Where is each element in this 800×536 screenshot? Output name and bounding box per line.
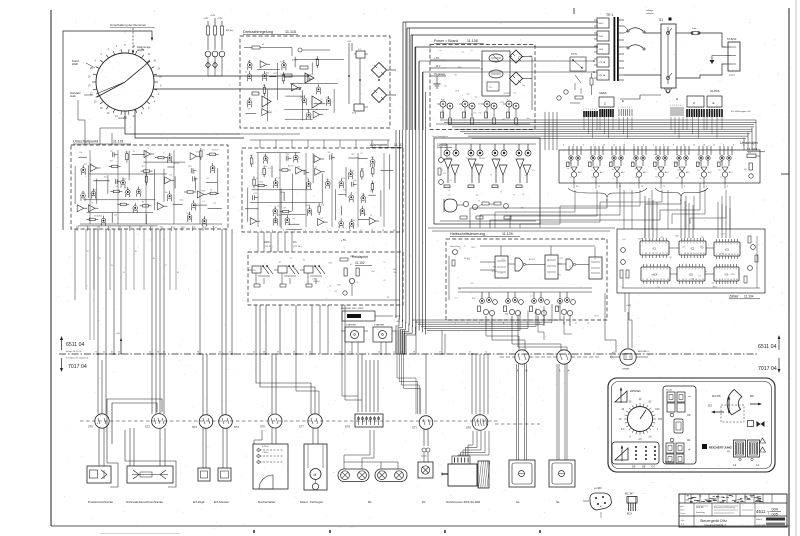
connector E ULTRA comb (707, 96, 722, 107)
Drehzahlregelung circuitry cluster (246, 56, 345, 121)
wire TR1 to S1 top (644, 32, 661, 34)
svg-text:0,5: 0,5 (524, 175, 527, 177)
svg-text:D9: D9 (632, 465, 636, 469)
elbow wires braces to counters (470, 197, 607, 228)
svg-text:ST4: ST4 (234, 425, 239, 429)
svg-text:24: 24 (576, 186, 578, 188)
Umschalter stage 5 (654, 146, 669, 183)
connector ST7 (308, 414, 322, 428)
wires Alarmprint top stubs (259, 140, 261, 148)
socket indicator O1 (670, 438, 674, 442)
svg-text:10k: 10k (165, 192, 168, 194)
wires starters to fold (351, 342, 353, 354)
svg-text:10k: 10k (79, 152, 82, 154)
svg-text:9: 9 (593, 145, 594, 147)
svg-text:IC2: IC2 (691, 279, 694, 281)
svg-text:D1: D1 (721, 155, 723, 157)
svg-text:6: 6 (680, 105, 681, 107)
SL box (549, 460, 575, 487)
svg-text:T1: T1 (490, 175, 492, 177)
wires power board internal (446, 59, 480, 61)
svg-text:7017 04: 7017 04 (758, 366, 777, 372)
svg-text:4k7: 4k7 (250, 155, 253, 157)
svg-text:15: 15 (662, 253, 664, 255)
flip-flop FF2 (545, 255, 558, 279)
svg-text:+5V: +5V (396, 321, 400, 323)
svg-text:58: 58 (413, 352, 415, 354)
Positionsschranke box (87, 466, 111, 483)
svg-text:4: 4 (590, 109, 591, 111)
connector circle B motor (515, 350, 529, 364)
svg-text:T7: T7 (594, 259, 596, 261)
svg-text:Power = Board: Power = Board (434, 39, 458, 43)
wires buzzer stubs (613, 356, 620, 358)
svg-text:9: 9 (673, 145, 674, 147)
single socket middle (674, 419, 683, 433)
svg-text:T1: T1 (513, 195, 515, 197)
svg-text:7490: 7490 (712, 287, 716, 289)
svg-text:/: / (768, 512, 769, 516)
svg-text:72: 72 (485, 352, 487, 354)
svg-text:D8: D8 (642, 465, 646, 469)
svg-text:55: 55 (253, 352, 255, 354)
svg-text:T2: T2 (466, 158, 468, 160)
svg-text:21: 21 (633, 145, 635, 147)
rotary switch wiper arm upper (125, 61, 150, 82)
gate input wires (480, 261, 495, 263)
svg-text:Wahl: Wahl (72, 62, 78, 66)
wires ST2 to Schneideschranke (129, 428, 131, 466)
block Halbschrittsteuerung 11.109 dashed border (446, 239, 607, 320)
svg-text:7447: 7447 (638, 239, 642, 241)
svg-text:UEMI: UEMI (599, 91, 607, 95)
svg-text:AL: AL (612, 168, 614, 171)
svg-text:12: 12 (194, 227, 196, 229)
svg-text:R23: R23 (351, 171, 354, 173)
diode pair above PL (422, 448, 426, 452)
tick numbers Umschalter top edge (563, 145, 754, 147)
svg-text:37: 37 (111, 352, 113, 354)
wires Umschaltpunkt top to rotary area (84, 120, 86, 145)
svg-text:5: 5 (120, 227, 121, 229)
svg-text:8: 8 (152, 227, 153, 229)
svg-text:R12: R12 (186, 213, 189, 215)
Umschalter stage bottom stubs (574, 183, 725, 189)
svg-text:14: 14 (660, 279, 662, 281)
svg-text:3: 3 (479, 323, 480, 325)
svg-text:K2: K2 (387, 297, 389, 299)
Umschaltpunkt bottom rail (80, 223, 222, 225)
title block bottom band (693, 516, 695, 527)
svg-text:1: 1 (643, 269, 644, 271)
svg-text:Schaltplan-Nr. (geblattet): Schaltplan-Nr. (geblattet) (66, 357, 88, 360)
svg-text:C12: C12 (478, 113, 481, 115)
svg-text:Positionsschranke: Positionsschranke (88, 500, 113, 504)
svg-text:4: 4 (653, 269, 654, 271)
svg-text:10k: 10k (321, 205, 324, 207)
svg-text:3: 3 (711, 107, 712, 109)
left vertical bus bundle (395, 130, 397, 318)
svg-text:EX-Messer: EX-Messer (214, 500, 229, 504)
svg-text:15: 15 (613, 145, 615, 147)
svg-text:Benennung und Bemerkung: Benennung und Bemerkung (714, 506, 735, 509)
wire TR1 secondary 24V (624, 74, 661, 76)
svg-text:6511 04: 6511 04 (758, 344, 776, 350)
svg-text:R41: R41 (273, 73, 276, 75)
Umschalter right end components (747, 154, 756, 158)
resistor R12 vertical (214, 18, 216, 26)
svg-text:17: 17 (469, 352, 471, 354)
svg-text:IC3: IC3 (725, 249, 729, 252)
svg-text:93: 93 (277, 352, 279, 354)
svg-text:11.108: 11.108 (467, 39, 478, 43)
svg-text:power: power (729, 74, 735, 77)
svg-text:6: 6 (695, 269, 696, 271)
svg-text:T4: T4 (589, 162, 591, 164)
panel triangle delta icons right (760, 438, 766, 443)
svg-text:5: 5 (727, 269, 728, 271)
svg-text:R9: R9 (142, 202, 144, 204)
svg-text:4: 4 (283, 230, 284, 232)
svg-text:C3: C3 (202, 201, 204, 203)
components near SY7C (590, 78, 593, 85)
svg-text:K3: K3 (350, 264, 352, 266)
svg-text:1: 1 (679, 269, 680, 271)
svg-text:18: 18 (703, 145, 705, 147)
svg-text:34: 34 (401, 352, 403, 354)
svg-text:T4: T4 (591, 170, 593, 172)
svg-text:D4: D4 (444, 86, 446, 88)
wire fuse to connector (699, 33, 726, 47)
fold tick right border (781, 173, 789, 175)
svg-text:ST6: ST6 (260, 425, 265, 429)
diode D12 diamond (213, 62, 218, 68)
svg-text:T4: T4 (655, 162, 657, 164)
relay SY7C box (570, 57, 586, 71)
svg-text:C3: C3 (202, 150, 204, 152)
panel warning triangle icon (615, 448, 628, 460)
svg-text:3: 3 (727, 186, 728, 188)
svg-text:D7: D7 (652, 465, 656, 469)
counter bottom rail (622, 287, 760, 289)
svg-text:D2: D2 (559, 274, 561, 276)
svg-text:BMW Δ 1/6: BMW Δ 1/6 (665, 461, 674, 464)
svg-text:O2: O2 (687, 413, 691, 417)
ground symbol power board (436, 76, 438, 84)
svg-text:T1: T1 (441, 170, 443, 172)
svg-text:+5V 5A: +5V 5A (599, 61, 606, 64)
connector ST3 (199, 415, 213, 429)
svg-text:0,1: 0,1 (462, 51, 465, 53)
Relaisprint tiny labels (253, 258, 398, 299)
svg-text:Q2: Q2 (669, 257, 672, 259)
svg-text:9: 9 (716, 279, 717, 281)
gate G1 (515, 258, 523, 271)
svg-text:C3: C3 (124, 152, 126, 154)
tick numbers Halbschritt bottom edge (455, 323, 589, 325)
wires Relaisprint down to fold (199, 229, 201, 354)
wire from pentagon to frame (600, 512, 602, 518)
svg-text:T4: T4 (697, 155, 699, 157)
svg-text:8: 8 (703, 107, 704, 109)
svg-text:8: 8 (539, 323, 540, 325)
svg-text:3: 3 (691, 107, 692, 109)
svg-text:1: 1 (618, 107, 619, 109)
counter inter-IC wires (669, 247, 679, 249)
svg-text:100n: 100n (280, 192, 284, 194)
svg-text:R41: R41 (149, 174, 152, 176)
svg-text:T4: T4 (256, 178, 258, 180)
svg-text:R23: R23 (306, 205, 309, 207)
svg-text:1: 1 (706, 107, 707, 109)
Schneidebereichsschranke box (127, 466, 173, 483)
fold dash-dot line (59, 353, 757, 355)
svg-text:12: 12 (652, 253, 654, 255)
Halbschritt driver cluster 4 (556, 292, 576, 326)
resistor network above op-amps (300, 66, 308, 69)
svg-text:2: 2 (682, 269, 683, 271)
wire 75 below Umschaltpunkt (74, 229, 76, 300)
svg-text:5: 5 (656, 243, 657, 245)
connector comb power board (584, 111, 597, 117)
elbow wires to ST7 (256, 354, 311, 414)
svg-text:12: 12 (653, 279, 655, 281)
svg-text:O1: O1 (687, 438, 691, 442)
transistor BC347 package (627, 497, 637, 504)
svg-text:4: 4 (491, 323, 492, 325)
svg-text:7: 7 (141, 227, 142, 229)
drawing frame bottom border (51, 525, 789, 527)
svg-text:T7: T7 (530, 296, 532, 298)
svg-text:R12: R12 (493, 266, 496, 268)
svg-text:R23: R23 (249, 98, 252, 100)
svg-text:D3: D3 (708, 404, 712, 408)
svg-text:7: 7 (734, 244, 735, 246)
svg-text:16: 16 (736, 279, 738, 281)
svg-text:18: 18 (623, 145, 625, 147)
svg-text:7805: 7805 (457, 67, 461, 69)
wire bundles Umschalter to Zaehler (645, 196, 657, 238)
svg-text:Umschaltpunkt: Umschaltpunkt (73, 140, 99, 144)
svg-text:8: 8 (737, 244, 738, 246)
svg-text:11: 11 (649, 253, 651, 255)
svg-text:15: 15 (663, 279, 665, 281)
svg-text:D7: D7 (329, 285, 331, 287)
svg-text:IC7: IC7 (557, 306, 560, 308)
Relaisprint bottom rail (252, 299, 400, 301)
svg-text:11.102: 11.102 (355, 261, 365, 265)
svg-text:1k: 1k (534, 312, 536, 314)
svg-text:7490: 7490 (730, 274, 734, 276)
svg-text:IC5: IC5 (689, 274, 693, 277)
svg-text:AL: AL (698, 162, 700, 165)
svg-text:7: 7 (631, 107, 632, 109)
svg-text:D2: D2 (315, 166, 317, 168)
svg-text:STARTER: STARTER (346, 324, 356, 327)
svg-text:Drehschalter: Drehschalter (258, 500, 276, 504)
svg-text:+24V: +24V (210, 15, 216, 17)
long wires from left blocks down to bottom devices (89, 229, 91, 340)
op-amp U3 Drehzahlregelung (262, 96, 271, 107)
svg-text:7473: 7473 (594, 315, 598, 317)
drawing frame left border (50, 10, 52, 526)
svg-text:2: 2 (620, 107, 621, 109)
verticals power comb to Umschalter (544, 112, 546, 150)
svg-text:STARTER: STARTER (374, 324, 384, 327)
svg-text:55: 55 (103, 352, 105, 354)
svg-text:1: 1 (642, 243, 643, 245)
connector ST5 (95, 414, 109, 428)
wires to SL (556, 364, 558, 460)
svg-text:D2: D2 (116, 186, 118, 188)
svg-text:16: 16 (153, 258, 155, 260)
svg-text:4: 4 (724, 269, 725, 271)
op-amp U1 Drehzahlregelung (305, 73, 314, 83)
panel lower-left sub-panel (612, 442, 659, 464)
flip-flop FF3 (589, 257, 602, 279)
svg-text:D2: D2 (362, 195, 364, 197)
svg-text:C2: C2 (356, 282, 358, 284)
svg-text:DL: DL (368, 500, 372, 504)
svg-text:T4: T4 (370, 215, 372, 217)
svg-text:C2: C2 (290, 258, 292, 260)
svg-text:SL: SL (556, 500, 560, 504)
svg-text:2: 2 (646, 269, 647, 271)
bridge rectifier GL2 (372, 88, 387, 103)
svg-text:M: M (314, 473, 317, 477)
svg-text:15: 15 (693, 145, 695, 147)
driver column 2 11.105 (468, 144, 483, 188)
wire column joins down (207, 70, 209, 76)
svg-text:D5: D5 (90, 163, 92, 165)
wires ST10 to PL (423, 429, 425, 446)
Halbschritt tiny labels (452, 246, 599, 318)
svg-text:5: 5 (696, 107, 697, 109)
svg-text:18: 18 (177, 272, 179, 274)
svg-text:15: 15 (700, 253, 702, 255)
svg-text:D1: D1 (676, 154, 678, 156)
svg-text:4: 4 (652, 243, 653, 245)
svg-text:C3: C3 (156, 202, 158, 204)
svg-text:3: 3 (722, 244, 723, 246)
svg-text:12: 12 (99, 258, 101, 260)
svg-text:12: 12 (603, 145, 605, 147)
svg-text:2: 2 (467, 323, 468, 325)
wire rotary to circuits right upper (154, 75, 308, 77)
page edge shadow right (795, 0, 797, 536)
11.105 lower cluster gate (444, 199, 457, 212)
svg-text:7017 04: 7017 04 (68, 364, 87, 370)
svg-text:10: 10 (349, 230, 351, 232)
bus staircase to fold (396, 318, 399, 354)
svg-text:C4: C4 (470, 50, 472, 52)
svg-text:R9: R9 (248, 61, 250, 63)
brace below Umschalter 1 (568, 188, 647, 197)
svg-text:2k2: 2k2 (718, 170, 721, 172)
svg-text:T2: T2 (520, 164, 522, 166)
svg-text:6: 6 (743, 145, 744, 147)
svg-text:C12: C12 (371, 157, 374, 159)
EX-Digtl box (198, 468, 210, 481)
wires Zaehler down to buzzer area (604, 293, 606, 340)
svg-text:BC107: BC107 (529, 259, 535, 261)
svg-text:BUZZER 3: BUZZER 3 (638, 351, 649, 353)
svg-text:7447: 7447 (675, 235, 679, 237)
svg-text:14: 14 (215, 227, 217, 229)
svg-text:REICHERT-JUNG: REICHERT-JUNG (709, 446, 732, 450)
svg-text:22k: 22k (342, 178, 345, 180)
IC2 counter (679, 241, 706, 255)
svg-text:8: 8 (667, 269, 668, 271)
svg-text:1n: 1n (316, 109, 318, 111)
svg-text:MP (Ix): MP (Ix) (226, 30, 233, 32)
wires to EX-Digtl (202, 428, 204, 468)
svg-text:4k7: 4k7 (110, 160, 113, 162)
svg-text:17: 17 (229, 352, 231, 354)
fold label arrow up left (61, 337, 63, 350)
panel indicator dot columns (635, 446, 637, 460)
wire rotary bottom down 2 (135, 109, 244, 138)
transistor Q13 (219, 51, 225, 57)
svg-text:C1: C1 (448, 189, 450, 191)
Schrittmotor comb (452, 456, 470, 464)
svg-text:L2: L2 (733, 463, 737, 467)
svg-text:13: 13 (382, 230, 384, 232)
svg-text:16: 16 (666, 253, 668, 255)
bridge rectifier GL1 (372, 63, 387, 78)
svg-text:8: 8 (702, 269, 703, 271)
routing channel verticals right (755, 120, 757, 150)
wires bridges to block edge (387, 69, 397, 71)
Umschalter stage 1 (567, 146, 582, 183)
svg-text:10k: 10k (353, 180, 356, 182)
connector box ST9 (355, 414, 383, 427)
svg-text:D2: D2 (313, 153, 315, 155)
svg-text:160: 160 (658, 418, 663, 421)
fold mark bottom 2 (329, 530, 331, 533)
svg-text:13: 13 (728, 254, 730, 256)
svg-text:13: 13 (219, 352, 221, 354)
svg-text:C2: C2 (383, 261, 385, 263)
panel dashed route rect (721, 405, 744, 422)
fold mark bottom 1 (253, 530, 255, 533)
svg-text:7: 7 (701, 107, 702, 109)
EX-Messer box (218, 468, 231, 481)
Motor-Tachogen box (304, 444, 327, 490)
comb drop wires (584, 117, 597, 138)
svg-text:10u: 10u (473, 112, 476, 114)
svg-text:D2: D2 (207, 178, 209, 180)
wire left column down to Umschaltpunkt (62, 143, 64, 230)
panel knob dial (628, 407, 653, 432)
svg-text:T1: T1 (500, 192, 502, 194)
svg-text:2: 2 (689, 107, 690, 109)
svg-text:8: 8 (736, 269, 737, 271)
svg-text:2k2: 2k2 (655, 177, 658, 179)
bus wire top 2 (407, 27, 598, 29)
svg-text:14: 14 (730, 279, 732, 281)
svg-text:2N3055: 2N3055 (518, 56, 525, 58)
bridge rectifier power GL3 (510, 50, 523, 63)
wire bundle 396-404 to fold (395, 330, 397, 354)
block Umschalter 11.103 border (559, 150, 760, 183)
svg-text:AL: AL (720, 160, 722, 163)
connector Z ULTRA comb (687, 96, 704, 107)
svg-text:T4: T4 (320, 99, 322, 101)
svg-text:3: 3 (685, 269, 686, 271)
svg-text:( Gesamtschaltplan ): ( Gesamtschaltplan ) (704, 524, 726, 527)
rotary switch S2 dial circle (96, 53, 154, 111)
